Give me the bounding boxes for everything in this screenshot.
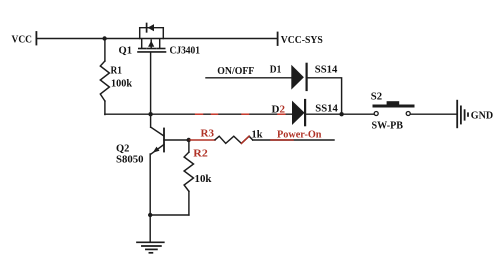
switch S2 SW-PB: [374, 101, 413, 115]
net label ON/OFF with stub wire: [206, 65, 292, 78]
power port GND: [457, 101, 493, 128]
svg-text:D1: D1: [270, 64, 282, 76]
svg-text:SS14: SS14: [315, 64, 338, 76]
node: gate / Q2 collector junction: [148, 112, 152, 116]
svg-text:VCC-SYS: VCC-SYS: [281, 34, 323, 46]
resistor R2: [184, 140, 193, 215]
diode D1: [291, 64, 306, 90]
svg-text:Q1: Q1: [119, 45, 133, 57]
wire D2 cathode to junction: [306, 113, 341, 115]
wire switch to GND port: [410, 113, 456, 115]
svg-text:VCC: VCC: [12, 34, 33, 46]
svg-text:D: D: [272, 103, 280, 115]
transistor Q1 P-MOSFET body: [138, 39, 166, 52]
red dash on Power-On stub: [271, 139, 293, 141]
svg-text:ON/OFF: ON/OFF: [217, 65, 254, 77]
body diode of Q1: [140, 24, 164, 39]
svg-text:GND: GND: [471, 110, 493, 122]
transistor Q2 S8050 NPN: [151, 114, 164, 154]
svg-text:R1: R1: [111, 65, 123, 77]
wire gate net row (R1 bottom to D2 anode): [105, 113, 292, 115]
svg-text:SS14: SS14: [315, 103, 338, 115]
wire junction to switch S2: [342, 113, 374, 115]
svg-text:S8050: S8050: [116, 154, 144, 166]
svg-text:10k: 10k: [195, 173, 213, 185]
wire D1 cathode to corner and down: [308, 78, 342, 114]
svg-text:Power-On: Power-On: [277, 129, 322, 141]
wire R2 bottom to emitter: [150, 214, 189, 216]
svg-text:SW-PB: SW-PB: [372, 120, 404, 132]
svg-text:1k: 1k: [252, 129, 264, 141]
wire red segment base junction to R3: [189, 139, 215, 141]
wire Q2 emitter down to ground: [149, 154, 151, 242]
red dashes on gate net wire: [196, 113, 285, 115]
node: emitter / R2 junction: [148, 213, 152, 217]
resistor R1: [100, 39, 109, 115]
wire Q2 base to junction: [164, 139, 189, 141]
power port VCC: [12, 32, 37, 46]
node: base / R2 / R3 junction: [187, 138, 191, 142]
power port VCC-SYS: [278, 33, 323, 47]
wire Q1 gate lead down to row: [150, 53, 152, 115]
resistor R3: [215, 136, 253, 143]
svg-text:R2: R2: [193, 148, 208, 160]
node: VCC / R1 / Q1 junction: [102, 36, 106, 40]
svg-text:2: 2: [280, 103, 286, 115]
svg-text:100k: 100k: [111, 78, 133, 90]
wire red segment on R3 last slope: [241, 136, 249, 143]
node: D1/D2/switch junction: [339, 112, 343, 116]
diode D2: [292, 100, 305, 125]
wire R3 to Power-On stub: [253, 139, 334, 141]
ground symbol: [137, 242, 164, 253]
svg-text:R3: R3: [201, 128, 215, 140]
svg-text:CJ3401: CJ3401: [170, 45, 201, 57]
wire VCC rail to VCC-SYS: [37, 38, 277, 40]
svg-text:S2: S2: [371, 91, 383, 103]
